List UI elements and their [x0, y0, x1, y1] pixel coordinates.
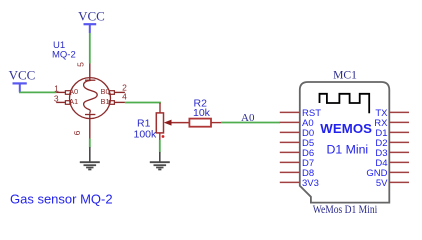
svg-text:WeMos D1 Mini: WeMos D1 Mini [313, 204, 378, 216]
svg-text:6: 6 [72, 130, 82, 135]
sensor circle [70, 78, 111, 119]
svg-text:5V: 5V [376, 178, 388, 189]
svg-text:B0: B0 [101, 87, 110, 96]
R1 top lead [159, 103, 161, 113]
WeMos right pin lines [389, 112, 409, 182]
svg-text:D1 Mini: D1 Mini [326, 143, 368, 157]
bottom electrode plate [85, 114, 95, 116]
svg-text:A1: A1 [69, 97, 78, 106]
ground under sensor [80, 147, 100, 170]
WeMos left pin labels [302, 108, 321, 189]
resistor R1 100k (potentiometer) [156, 113, 189, 140]
WeMos MC1 module body [300, 82, 390, 203]
svg-text:A0: A0 [241, 112, 255, 124]
wire VCC-top to pin 5 [89, 33, 91, 64]
WeMos left pin lines [280, 112, 300, 182]
R2 right lead [211, 122, 221, 124]
sensor right pin leads 2,4 [114, 92, 125, 102]
wire pin 6 to ground [89, 139, 91, 148]
sensor pin 6 lead [89, 115, 91, 139]
sensor U1 MQ-2 body [70, 78, 111, 119]
svg-text:100k: 100k [134, 128, 158, 140]
WeMos right pin labels [366, 108, 388, 189]
sensor left pin leads 1,3 [56, 92, 65, 102]
wire R1 to ground [159, 140, 161, 153]
sensor pin 5 lead [89, 64, 91, 81]
svg-text:WEMOS: WEMOS [320, 121, 372, 136]
power VCC top [78, 9, 105, 33]
square wave symbol [320, 94, 370, 113]
R1 wiper arrow [164, 120, 172, 126]
resistor R2 10k [189, 119, 221, 127]
svg-text:A0: A0 [69, 87, 78, 96]
svg-text:MQ-2: MQ-2 [52, 50, 76, 61]
svg-text:4: 4 [122, 92, 127, 102]
svg-text:B1: B1 [101, 97, 110, 106]
heater squiggle [84, 80, 98, 113]
svg-text:5: 5 [76, 62, 86, 67]
R1 wiper junction dot [162, 135, 165, 138]
svg-text:MC1: MC1 [333, 68, 357, 81]
wire R2 to WeMos A0 [221, 122, 280, 124]
svg-text:Gas sensor MQ-2: Gas sensor MQ-2 [10, 191, 113, 206]
sensor U1 labels [52, 40, 76, 61]
sensor internal pad labels A0 A1 B0 B1 [69, 87, 110, 106]
power VCC left [9, 68, 36, 93]
ground under R1 [150, 152, 170, 170]
top electrode plate [85, 79, 95, 81]
svg-text:3: 3 [54, 93, 59, 103]
wire pin 4 to R1 top [125, 103, 160, 104]
sensor left pin boxes [65, 91, 70, 105]
svg-text:10k: 10k [193, 107, 211, 119]
wire VCC-left to pin 1 [19, 91, 56, 93]
svg-text:VCC: VCC [78, 9, 105, 24]
svg-text:1: 1 [54, 83, 59, 93]
svg-text:VCC: VCC [9, 68, 36, 83]
svg-text:3V3: 3V3 [302, 178, 319, 189]
R1 bottom lead [159, 133, 161, 140]
sensor right pin boxes [109, 91, 114, 105]
